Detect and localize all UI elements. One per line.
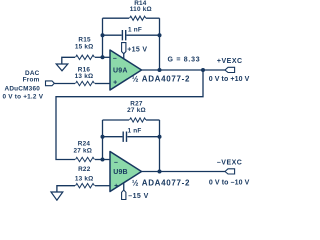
svg-text:–: – bbox=[113, 55, 117, 62]
node U9A feedback junction bbox=[158, 68, 162, 72]
wire R14 right to corner bbox=[146, 17, 160, 19]
svg-text:+: + bbox=[114, 183, 118, 190]
capacitor C1 1 nF (U9A) bbox=[122, 30, 125, 40]
svg-text:ADuCM360: ADuCM360 bbox=[5, 85, 41, 92]
node U9A output branch bbox=[201, 68, 205, 72]
label R16 bbox=[75, 67, 94, 81]
node U9A inverting junction bbox=[101, 55, 105, 59]
svg-text:–: – bbox=[114, 159, 118, 166]
label R15 bbox=[75, 37, 94, 51]
wire R15 to U9A inverting input bbox=[95, 56, 110, 58]
svg-text:–15 V: –15 V bbox=[128, 193, 148, 200]
wire U9A output bbox=[142, 69, 226, 71]
wire R22 to U9B non-inverting input bbox=[95, 185, 110, 187]
label R27 bbox=[127, 100, 146, 114]
wire U9B cap branch left bbox=[103, 136, 123, 138]
op-amp U9B bbox=[110, 152, 142, 192]
connector -VEXC output bbox=[225, 169, 235, 174]
wire U9A feedback loop right vertical bbox=[159, 18, 161, 70]
label R14 bbox=[130, 0, 152, 13]
wire U9B output bbox=[142, 171, 226, 173]
connector +VEXC output bbox=[225, 67, 235, 72]
svg-text:½ ADA4077-2: ½ ADA4077-2 bbox=[132, 179, 190, 188]
wire R27 right to corner bbox=[146, 119, 160, 121]
op-amp U9A bbox=[110, 50, 142, 90]
wire R16 to U9A non-inverting input bbox=[95, 83, 110, 85]
wire R22 ground stub bbox=[57, 186, 75, 192]
wire DAC to R16 bbox=[54, 83, 75, 85]
svg-text:G = 8.33: G = 8.33 bbox=[168, 56, 201, 63]
svg-text:1 nF: 1 nF bbox=[128, 26, 142, 33]
wire U9A cap branch right bbox=[127, 34, 160, 36]
power flag +15 V stub bbox=[123, 54, 125, 59]
svg-text:R22: R22 bbox=[78, 166, 91, 173]
ground (R22) bbox=[51, 192, 63, 200]
connector DAC input bbox=[46, 81, 55, 86]
label R22 bbox=[75, 166, 94, 183]
wire stage link from U9A output down and left to R24 bbox=[56, 70, 203, 160]
power flag -15 V bbox=[122, 190, 126, 200]
svg-text:From: From bbox=[23, 76, 40, 83]
svg-text:–VEXC: –VEXC bbox=[217, 160, 242, 167]
resistor R24 bbox=[76, 157, 95, 161]
svg-text:+15 V: +15 V bbox=[127, 46, 147, 53]
svg-text:R15: R15 bbox=[78, 37, 91, 44]
svg-text:½ ADA4077-2: ½ ADA4077-2 bbox=[132, 75, 190, 84]
capacitor C2 1 nF (U9B) bbox=[123, 132, 126, 142]
label DAC source bbox=[2, 70, 43, 101]
svg-text:0 V to +1.2 V: 0 V to +1.2 V bbox=[2, 94, 43, 101]
node cap C2 right bbox=[158, 135, 162, 139]
svg-text:+VEXC: +VEXC bbox=[217, 58, 243, 65]
resistor R16 bbox=[76, 81, 95, 85]
power flag -15 V stub bbox=[123, 183, 125, 190]
label R24 bbox=[73, 140, 92, 154]
node U9B inverting junction bbox=[101, 158, 105, 162]
wire U9B feedback loop left vertical bbox=[102, 120, 104, 160]
svg-text:27 kΩ: 27 kΩ bbox=[73, 148, 92, 155]
wire U9A feedback loop left vertical bbox=[102, 18, 104, 57]
resistor R15 bbox=[76, 55, 95, 59]
svg-text:0 V to –10 V: 0 V to –10 V bbox=[209, 180, 250, 187]
wire U9A feedback top with resistor R14 bbox=[103, 17, 130, 19]
ground (R15) bbox=[56, 64, 68, 71]
node cap C1 right bbox=[158, 33, 162, 37]
svg-text:110 kΩ: 110 kΩ bbox=[130, 6, 152, 13]
svg-text:13 kΩ: 13 kΩ bbox=[75, 73, 94, 80]
svg-text:27 kΩ: 27 kΩ bbox=[127, 107, 146, 114]
resistor R14 bbox=[130, 16, 146, 20]
svg-text:1 nF: 1 nF bbox=[128, 127, 142, 134]
node U9B feedback junction bbox=[158, 170, 162, 174]
node cap C2 left bbox=[101, 135, 105, 139]
node cap C1 left bbox=[101, 33, 105, 37]
wire R24 to U9B inverting input bbox=[95, 159, 110, 161]
svg-text:U9A: U9A bbox=[113, 68, 128, 75]
wire U9B feedback loop right vertical bbox=[159, 120, 161, 172]
svg-text:+: + bbox=[113, 80, 117, 87]
wire U9A cap branch left bbox=[103, 34, 122, 36]
resistor R22 bbox=[76, 184, 95, 188]
svg-text:15 kΩ: 15 kΩ bbox=[75, 44, 94, 51]
wire U9B feedback top left bbox=[103, 119, 130, 121]
power flag +15 V bbox=[122, 43, 126, 54]
svg-text:U9B: U9B bbox=[113, 169, 128, 176]
svg-text:0 V to +10 V: 0 V to +10 V bbox=[209, 76, 250, 83]
resistor R27 bbox=[130, 118, 146, 122]
wire R15 ground stub bbox=[62, 57, 75, 64]
svg-text:13 kΩ: 13 kΩ bbox=[75, 176, 94, 183]
svg-text:R24: R24 bbox=[78, 140, 91, 147]
wire U9B cap branch right bbox=[127, 136, 159, 138]
